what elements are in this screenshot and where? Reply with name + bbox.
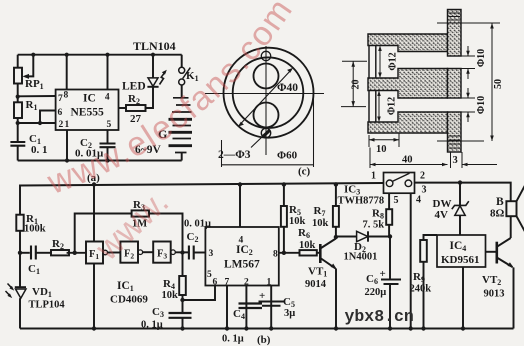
resistor R1 100k [16,215,23,231]
dimension line phi60 [222,164,314,166]
svg-text:6: 6 [213,278,218,288]
svg-text:ybx8.cn: ybx8.cn [345,307,414,326]
svg-text:+: + [380,268,386,280]
svg-text:Φ10: Φ10 [476,49,487,67]
capacitor C3 [169,313,192,318]
wire R1 to node2 [17,118,19,142]
wire IC4 bottom to ground [462,267,464,329]
node C3 ground [180,326,184,330]
resistor R1 (a) [14,102,22,118]
wire R3 to C2 node [149,214,183,253]
inverter F2 [120,242,138,263]
svg-text:20: 20 [351,80,362,90]
disc inner circle [233,57,304,128]
resistor R6 10k [300,250,317,255]
node DW branch [458,180,462,184]
node pin8 vcc [65,53,69,57]
node C5 ground [269,326,273,330]
dimension 20 [341,61,367,106]
op-amp U4 IC4 KD9561 box [437,235,486,267]
svg-text:0. 1: 0. 1 [31,144,48,156]
wire pin 1 to bottom rail [66,130,68,161]
node F1 top rail [92,182,96,186]
flange middle section [448,69,462,99]
svg-text:100k: 100k [24,224,46,235]
svg-text:3: 3 [453,155,458,166]
wire top rail (b) [20,183,384,186]
wire IC2 pin1 down [270,286,272,329]
resistor R4 10k [179,276,186,295]
node feedback R3 left [73,251,77,255]
dimension phi12 top [379,47,381,78]
wire IC2 pin8 to R6 [279,252,300,254]
svg-text:4V: 4V [435,209,449,221]
wire battery to bottom rail [181,153,183,161]
wire K1 to battery [181,85,183,98]
wire D2 to C6 node [368,236,390,238]
svg-text:Φ60: Φ60 [277,150,298,162]
svg-text:8: 8 [64,91,69,101]
centerline horizontal [205,93,324,95]
svg-text:3: 3 [422,185,427,196]
svg-text:10: 10 [376,144,387,155]
node pin6 wire [38,121,42,125]
wire R9 top to IC4 [424,235,438,240]
wire pin 6 [40,111,56,124]
svg-text:IC: IC [83,93,96,105]
svg-text:5: 5 [394,195,399,206]
svg-text:LM567: LM567 [224,259,260,271]
wire C2 to bottom rail [107,147,109,160]
svg-text:240k: 240k [410,284,432,295]
dimension arrow phi40 [240,70,292,126]
wire R1 to C1 node [19,231,21,287]
wire VT2 emitter to ground [513,268,515,329]
capacitor C5 electrolytic [259,302,285,306]
capacitor C6 220u electrolytic [381,280,401,285]
wire C2 to IC2 pin3 [194,252,206,254]
capacitor C4 [239,304,263,309]
wire IC3 pin5 to R8 [388,193,390,209]
wire IC2 pin2 down [245,286,247,329]
node C6 ground [388,326,392,330]
wire C6 to ground [389,284,391,329]
wire R4 to pin6 node [182,295,184,313]
svg-text:Φ12: Φ12 [388,52,399,70]
bore wall lines left top [369,46,376,79]
diode D2 1N4001 [357,231,368,241]
svg-text:8: 8 [273,250,278,260]
svg-text:NE555: NE555 [71,107,104,119]
svg-text:40: 40 [402,155,413,166]
wire R2 to LED branch [146,87,154,108]
wire DW to IC4 [459,215,461,235]
wire R2 to F1 [67,252,86,254]
wire node to pin 7 [18,95,56,97]
svg-text:10k: 10k [299,240,316,251]
wire VT1 emitter to ground [335,269,337,329]
node IC3 pin4 ground [409,326,413,330]
transducer circle bottom [254,103,279,128]
extension line phi60 left [221,140,223,167]
svg-text:5: 5 [107,120,112,130]
svg-text:4: 4 [239,236,244,246]
dimension phi10 bottom [462,88,476,122]
node pin1 ground [65,158,69,162]
node VT1 emitter ground [334,326,338,330]
wire pin 8 to vcc [66,55,68,90]
node R9 ground [421,326,425,330]
svg-text:8Ω: 8Ω [490,208,505,220]
node R1/C1 [18,251,22,255]
dimension 40 [370,148,462,169]
capacitor C1 (b) [31,246,36,260]
potentiometer RP1 [14,68,22,84]
node RP1 wiper top [31,53,35,57]
node R4/C3/pin6 [180,298,184,302]
dimension phi10 top [462,46,476,79]
flange bottom hatch lines [449,136,461,148]
svg-text:7: 7 [58,94,63,104]
LED D1 [148,78,158,86]
resistor R2 (b) [51,250,69,255]
svg-text:50: 50 [493,79,504,89]
svg-text:4: 4 [105,93,110,103]
svg-text:(c): (c) [298,166,311,178]
svg-text:0. 1μ: 0. 1μ [222,334,244,345]
svg-text:LED: LED [122,81,146,93]
wire R7 to collector node [335,227,337,239]
node IC4 ground [461,326,465,330]
svg-text:1: 1 [371,171,376,182]
disc outer circle [224,48,314,138]
wire bottom rail (b) [20,328,514,330]
wire left rail upper (a) [17,55,19,68]
hole top small [261,51,270,60]
node pin4 vcc [105,53,109,57]
wire VT2 collector to speaker [510,216,512,238]
wire F1 vcc drop [93,185,95,242]
svg-text:5: 5 [207,270,212,280]
svg-text:Φ40: Φ40 [277,82,298,94]
capacitor C1 (a) [10,142,25,146]
svg-text:220μ: 220μ [365,287,387,298]
node R1/C1/pin2 [16,121,20,125]
node C2 ground [105,158,109,162]
bobbin middle web section [368,69,448,99]
wire R5 to node [283,227,285,253]
resistor R5 10k [281,206,287,227]
inverter F1 [86,242,103,264]
wire top rail to switch K1 [181,55,183,68]
LED lightning arrow [160,72,166,85]
resistor R9 240k [420,240,427,262]
op-amp U2 IC2 LM567 box [205,227,278,286]
wire R8 to node [388,225,390,237]
bore wall lines left bottom [369,91,376,123]
wire R5 top [283,185,285,207]
node R5 rail [282,182,286,186]
svg-text:1: 1 [267,278,272,288]
battery G [172,98,192,153]
svg-text:9014: 9014 [305,279,327,290]
dimension phi12 bottom [378,92,380,122]
node RP1/R1/pin7 [16,95,20,99]
svg-text:3μ: 3μ [284,308,295,319]
wire pin 5 down [107,130,109,144]
zener diode DW 4V [452,201,469,209]
svg-text:Φ10: Φ10 [476,96,487,114]
wire F3 to C2 [175,251,189,253]
wire VD1 to bottom rail [19,298,21,328]
wire C1 to bottom rail [17,146,19,161]
node R7 rail [334,182,338,186]
flange top hatch lines [449,13,461,20]
node pin7 ground [225,326,229,330]
svg-text:1: 1 [65,120,70,130]
hole bottom small hatched [261,128,270,137]
node LED top [151,53,155,57]
transistor VT2 9013 [495,242,498,264]
wire IC2 pin7 ground [226,286,228,329]
svg-text:7: 7 [225,278,230,288]
svg-text:+: + [259,290,265,302]
svg-text:6: 6 [58,108,63,118]
switch K1 [179,67,185,73]
flange lower section [448,112,462,152]
wire IC3 pin2 to speaker [415,183,511,202]
dimension 3 arrow [462,164,497,166]
wire DW top [459,183,461,206]
centerline vertical [265,46,267,155]
node VT1 collector / D2 [334,235,338,239]
svg-text:CD4069: CD4069 [110,294,148,306]
wire pin 3 to R2 [119,107,127,109]
resistor R2 (a) [126,105,146,111]
svg-text:Φ12: Φ12 [387,97,398,115]
transducer circle top [254,64,279,89]
wire RP1 to node [17,84,19,103]
wire R9 to ground [423,262,425,329]
wire C3 to bottom rail [182,318,184,329]
flange upper section [448,10,462,57]
node F1 ground [92,326,96,330]
svg-text:9013: 9013 [484,289,505,300]
transistor VT1 9014 [319,244,322,263]
svg-text:TLN104: TLN104 [133,39,176,53]
svg-text:B: B [496,196,504,208]
wire node2 to pin 2 [18,122,56,124]
wire C6 top [389,237,391,280]
wire bottom rail (a) [18,160,182,162]
svg-text:0. 01μ: 0. 01μ [184,219,211,230]
node C4 ground [244,326,248,330]
svg-text:2: 2 [420,171,425,182]
bobbin top bar section [368,34,448,52]
dimension 50 [437,23,500,141]
wire top rail (a) [18,54,182,56]
svg-text:2: 2 [244,278,249,288]
svg-text:10k: 10k [289,216,306,227]
wire R7 top [335,185,337,207]
watermark www.elecfans.com curved [53,12,291,194]
wire R6 to VT1 base [317,252,321,254]
wire left rail (b) upper [19,185,21,215]
wire F1 to F2 [108,252,121,254]
wire pin 4 to vcc [107,55,109,90]
svg-text:TLP104: TLP104 [29,300,66,311]
bobbin bottom bar section [368,112,448,133]
node pin4 rail [238,182,242,186]
svg-text:2: 2 [59,120,64,130]
photodiode VD1 TLP104 [15,286,26,288]
svg-text:(b): (b) [257,334,271,346]
dimension 10 [369,133,399,147]
capacitor C2 (b) [189,246,194,260]
resistor R7 10k [333,206,339,227]
node R5 bottom [282,251,286,255]
svg-text:10k: 10k [162,290,179,301]
node D2/R8/C6 [388,234,392,238]
capacitor C2 (a) [100,144,116,148]
wire collector node to D2 [336,236,357,238]
wire C1 left lead [20,252,30,254]
RP1 wiper arrow [25,55,33,77]
wire IC4 to VT2 base [486,251,497,253]
svg-text:2—Φ3: 2—Φ3 [218,149,251,161]
svg-text:4: 4 [416,195,421,206]
svg-text:KD9561: KD9561 [441,254,480,266]
wire F2 to F3 [143,251,154,253]
extension line phi60 right [313,94,315,167]
op-amp U1 IC NE555 box [56,90,119,131]
switch box IC3 TWH8778 [384,173,415,194]
resistor R8 7.5k [386,209,392,225]
speaker B 8ohm [506,201,516,216]
leader line 2-phi3 [251,136,263,148]
wire C1 to R2 [36,252,51,254]
svg-text:1N4001: 1N4001 [344,252,378,263]
svg-text:0. 1μ: 0. 1μ [141,320,163,331]
svg-text:7. 5k: 7. 5k [363,220,385,231]
inverter F3 [153,242,171,263]
wire IC3 pin4 to ground [410,193,412,328]
svg-text:TWH8778: TWH8778 [338,196,385,207]
svg-text:10k: 10k [312,218,329,229]
node C2/R3/R4 [180,250,184,254]
resistor R3 1M [132,210,149,216]
VD1 light arrows [6,284,13,297]
wire R4 from node [182,253,184,277]
wire IC2 pin4 to rail [239,185,241,228]
wire feedback up to R3 [75,214,132,253]
wire LED anode to top rail [152,55,154,78]
wire F1 to ground rail [93,264,95,329]
svg-text:3: 3 [209,249,214,259]
wire pin 6 [183,286,216,301]
